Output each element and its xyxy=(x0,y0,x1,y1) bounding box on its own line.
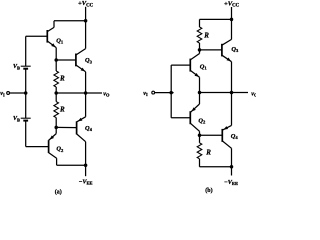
wire left rail lower (a) xyxy=(26,121,49,147)
label R lower (b) xyxy=(205,149,211,157)
label Q4 (a) xyxy=(85,125,93,132)
svg-text:vO: vO xyxy=(251,90,256,97)
label VB upper (a) xyxy=(13,64,20,70)
wire R lower to node (a) xyxy=(55,118,57,128)
label (a) xyxy=(55,188,62,195)
svg-text:VB: VB xyxy=(13,64,20,70)
power +VCC (circuit a) xyxy=(78,0,94,8)
svg-text:Q2: Q2 xyxy=(198,117,206,124)
node output (a) xyxy=(84,91,88,95)
label vO (b) xyxy=(251,90,258,97)
svg-text:vI: vI xyxy=(0,90,5,97)
svg-text:Q3: Q3 xyxy=(85,57,93,64)
svg-text:Q3: Q3 xyxy=(231,46,239,53)
wire vI to riser (b) xyxy=(155,92,174,94)
wire Q1 emitter to node (a) xyxy=(55,48,57,60)
wire Q4 emitter from output (b) xyxy=(231,93,233,126)
node Q3 base junction (a) xyxy=(54,58,58,62)
label Q1 (b) xyxy=(200,63,208,70)
wire Q4 base (b) xyxy=(200,134,223,136)
svg-text:Q4: Q4 xyxy=(85,125,93,132)
label Q4 (b) xyxy=(231,133,239,140)
svg-text:Q4: Q4 xyxy=(231,133,239,140)
wire mid node to output (a) xyxy=(56,92,85,94)
resistor R upper (a) xyxy=(54,71,59,87)
wire -VEE stub (b) xyxy=(231,167,233,176)
label VB lower (a) xyxy=(13,116,20,122)
wire +VCC rail down (a) xyxy=(85,7,87,21)
transistor Q4 (b) xyxy=(222,125,231,141)
resistor R upper (b) xyxy=(197,27,202,43)
wire top rail to R (b) xyxy=(200,18,232,20)
transistor Q1 (b) xyxy=(190,59,199,78)
svg-text:vO: vO xyxy=(103,90,110,97)
label (b) xyxy=(205,187,212,194)
svg-text:Q1: Q1 xyxy=(200,63,208,70)
wire Q1 base (b) xyxy=(171,64,190,66)
wire top rail to Q1 collector (a) xyxy=(54,20,86,22)
label Q1 (a) xyxy=(56,37,64,44)
svg-text:−VEE: −VEE xyxy=(79,178,93,185)
power +VCC (circuit b) xyxy=(224,0,240,8)
transistor Q3 (a) collector lead xyxy=(76,21,86,55)
node -VEE junction (b) xyxy=(230,165,234,169)
wire R lower lead (b) xyxy=(199,43,201,50)
svg-text:Q2: Q2 xyxy=(56,146,64,153)
node -VEE junction (a) xyxy=(84,163,88,167)
wire Q4 base (a) xyxy=(56,126,76,128)
transistor Q2 (b) xyxy=(190,104,199,124)
svg-text:R: R xyxy=(203,32,209,40)
wire Q2 emitter lead (b) xyxy=(199,93,201,105)
transistor Q3 (a) xyxy=(76,54,86,72)
label R upper (a) xyxy=(59,74,65,82)
transistor Q1 (a) collector lead xyxy=(47,21,54,32)
power -VEE (b) xyxy=(224,179,238,186)
wire output rail (b) xyxy=(200,92,249,94)
node input junction (b) xyxy=(169,91,173,95)
svg-text:vI: vI xyxy=(143,90,148,97)
wire R to bottom rail (b) xyxy=(200,159,232,167)
node VCC junction (b) xyxy=(230,18,234,22)
node Q1 Q2 emitter junction (b) xyxy=(198,91,202,95)
wire R upper lead lower (b) xyxy=(199,135,201,143)
svg-text:R: R xyxy=(59,105,65,113)
svg-text:(b): (b) xyxy=(205,187,212,194)
node Q3 Q4 emitter junction (b) xyxy=(230,91,234,95)
label R upper (b) xyxy=(203,32,209,40)
wire Q1 collector lead (b) xyxy=(190,50,199,60)
power -VEE (a) xyxy=(79,178,93,185)
wire Q1 base (a) xyxy=(26,35,48,37)
transistor Q4 (a) xyxy=(77,117,86,135)
transistor Q3 (b) collector lead xyxy=(222,19,232,45)
wire Q3 base (a) xyxy=(56,59,76,61)
svg-text:R: R xyxy=(205,149,211,157)
wire vI to rail (a) xyxy=(10,92,26,94)
transistor Q3 (b) xyxy=(222,44,232,62)
wire R upper lead (b) xyxy=(199,19,201,27)
battery VB lower (a) xyxy=(21,118,31,120)
label vI (a) xyxy=(0,90,5,97)
node VCC junction (a) xyxy=(84,19,88,23)
transistor Q2 (a) collector lead xyxy=(49,153,86,166)
wire left rail middle (a) xyxy=(25,69,27,119)
transistor Q4 (a) collector lead xyxy=(77,134,86,165)
wire Q3 emitter to output (a) xyxy=(85,72,87,93)
terminal vI (b) xyxy=(152,91,155,94)
transistor Q2 (b) collector lead xyxy=(190,123,199,135)
wire Q4 emitter from output (a) xyxy=(85,93,87,117)
wire node to R upper (a) xyxy=(55,60,57,71)
terminal vI (a) xyxy=(7,92,10,95)
wire left rail upper (a) xyxy=(25,36,27,66)
svg-text:−VEE: −VEE xyxy=(224,179,238,186)
label Q3 (a) xyxy=(85,57,93,64)
label vI (b) xyxy=(143,90,148,97)
wire +VCC rail down (b) xyxy=(231,7,233,19)
wire output stub (a) xyxy=(86,92,102,94)
wire R upper to mid node (a) xyxy=(55,87,57,93)
wire Q1 emitter to output (b) xyxy=(199,77,201,92)
wire Q2 emitter from node (a) xyxy=(55,127,57,133)
resistor R lower (a) xyxy=(54,102,59,118)
wire Q3 base (b) xyxy=(200,49,222,51)
node mid (a) xyxy=(54,91,58,95)
resistor R lower (b) xyxy=(197,143,202,159)
svg-text:Q1: Q1 xyxy=(56,37,64,44)
transistor Q4 (b) collector lead xyxy=(222,141,231,167)
node input junction (a) xyxy=(24,91,28,95)
wire Q3 emitter to output (b) xyxy=(231,62,233,93)
node Q4 base junction (b) xyxy=(198,134,202,138)
wire input riser down (b) xyxy=(171,93,190,118)
node Q3 base junction (b) xyxy=(198,48,202,52)
svg-text:VB: VB xyxy=(13,116,20,122)
svg-text:R: R xyxy=(59,74,65,82)
wire -VEE stub (a) xyxy=(85,165,87,176)
label Q3 (b) xyxy=(231,46,239,53)
label vO (a) xyxy=(103,90,110,97)
label Q2 (a) xyxy=(56,146,64,153)
node Q4 base junction (a) xyxy=(54,126,58,129)
svg-text:(a): (a) xyxy=(55,188,62,195)
battery VB upper (a) xyxy=(21,66,31,69)
wire mid node to R lower (a) xyxy=(55,93,57,102)
label R lower (a) xyxy=(59,105,65,113)
transistor Q1 (a) xyxy=(47,30,56,48)
label Q2 (b) xyxy=(198,117,206,124)
transistor Q2 (a) xyxy=(49,134,57,153)
wire input riser up (b) xyxy=(170,65,172,93)
